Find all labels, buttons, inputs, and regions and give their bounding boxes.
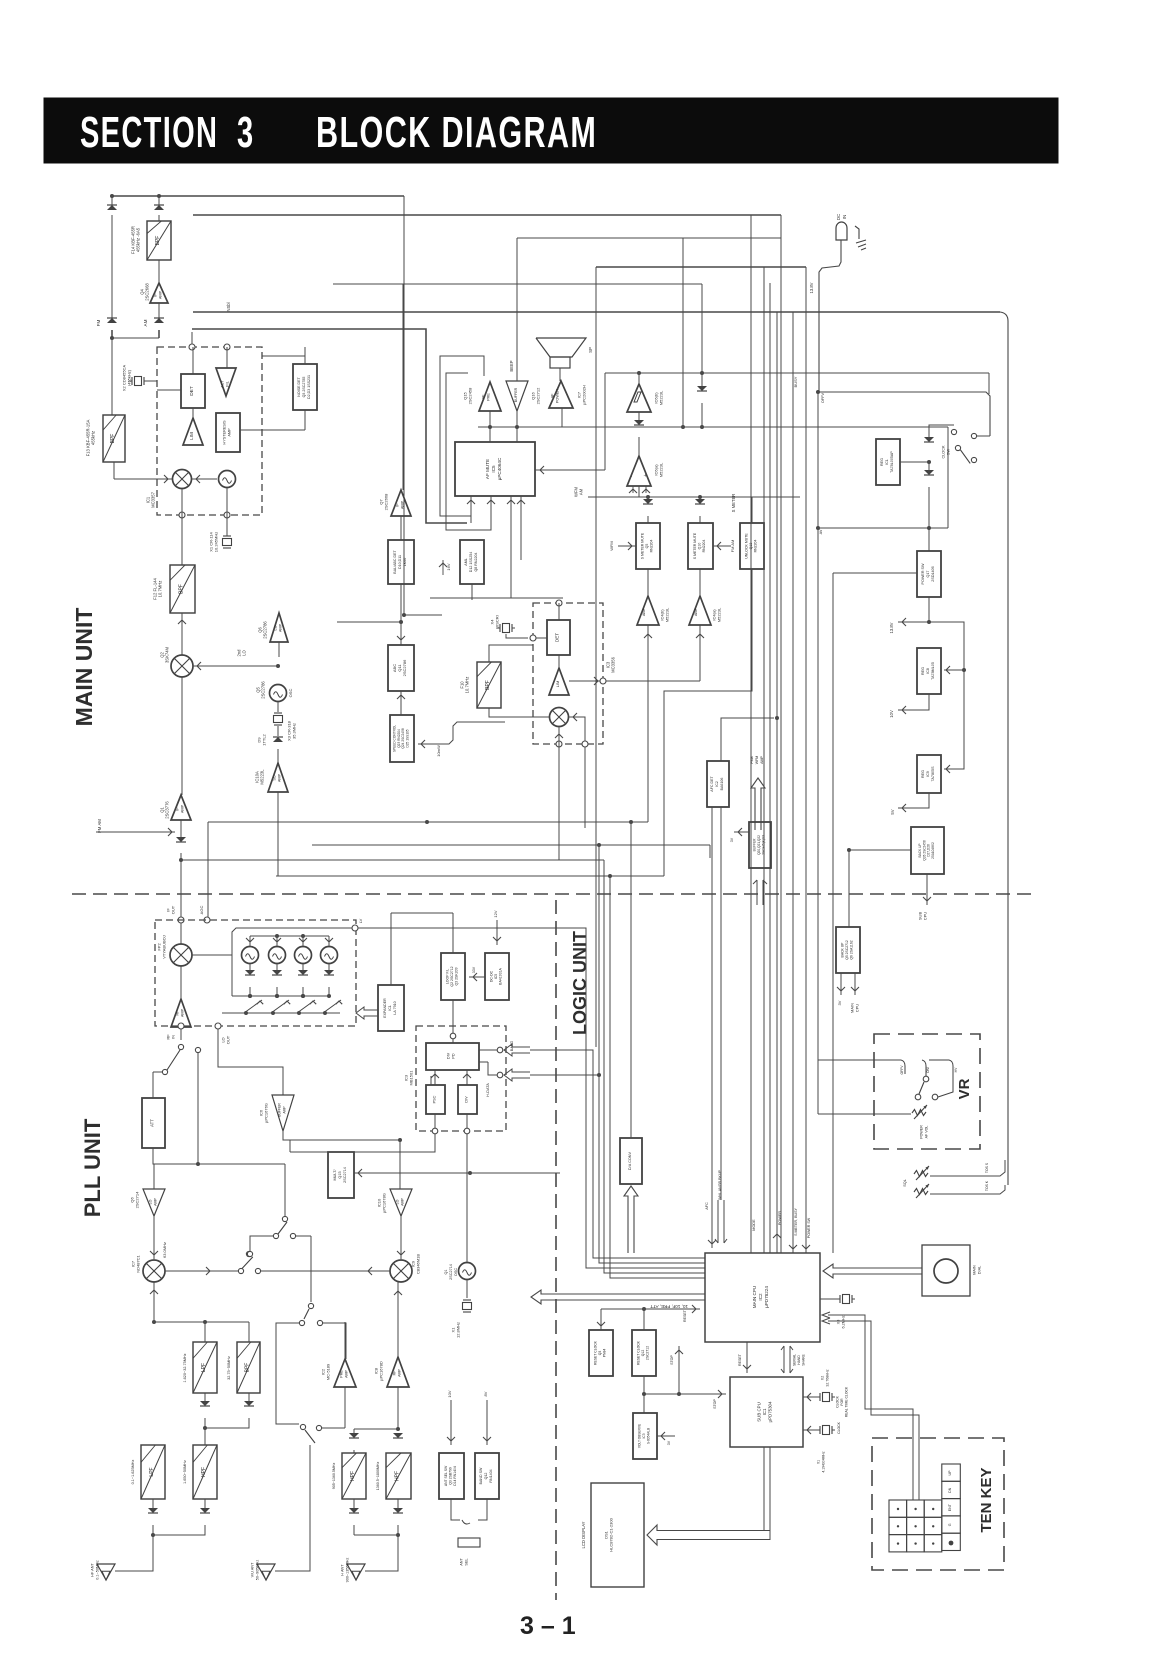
- box VOLT OBSERVE IC3: [633, 1413, 657, 1459]
- svg-text:1K60: 1K60: [403, 558, 407, 566]
- wire OFFV: [818, 392, 990, 436]
- svg-text:IC1: IC1: [388, 1005, 392, 1011]
- svg-text:AMP: AMP: [282, 1106, 286, 1114]
- diode D9: [277, 726, 279, 736]
- svg-text:TA78L005AP: TA78L005AP: [890, 451, 894, 473]
- amp IC10A SC AMP: [277, 749, 279, 763]
- box BUFFER Q20: [749, 822, 771, 868]
- svg-text:HPF: HPF: [395, 1471, 401, 1481]
- svg-text:Q6: Q6: [257, 627, 262, 633]
- svg-text:Q2 2SC2712: Q2 2SC2712: [450, 966, 454, 986]
- svg-text:AF VOL: AF VOL: [924, 1126, 928, 1139]
- diode right x702: [701, 373, 703, 390]
- svg-text:D/A CONV: D/A CONV: [628, 1151, 632, 1170]
- svg-text:PLL UNIT: PLL UNIT: [80, 1118, 105, 1217]
- amp IC10 LO AMP (down): [390, 1189, 412, 1216]
- terminal pins on IC1 box: [189, 344, 195, 350]
- svg-text:32.768kHz: 32.768kHz: [825, 1369, 829, 1386]
- svg-text:AFC: AFC: [705, 1202, 709, 1210]
- svg-text:SHAKE: SHAKE: [802, 1354, 806, 1366]
- amp IC4b AMP: [637, 596, 659, 625]
- svg-text:2SD1406: 2SD1406: [931, 566, 935, 581]
- mixer IC3: [550, 708, 569, 727]
- svg-text:LOOP F.L: LOOP F.L: [445, 969, 449, 984]
- label 13.8V arrow: [928, 597, 930, 622]
- box DET: [181, 374, 205, 408]
- svg-text:1TTL2: 1TTL2: [262, 733, 267, 745]
- label 3V volt observe: [657, 1435, 675, 1437]
- pot SQL: [914, 1171, 928, 1177]
- diode above S METER MUTE Q5: [647, 497, 649, 503]
- hollow arrow expander: [356, 1007, 378, 1019]
- svg-text:Q3 2SK209: Q3 2SK209: [455, 967, 459, 985]
- box BAND SW Q12: [475, 1453, 499, 1499]
- dashed divider logic unit vertical: [555, 900, 557, 1600]
- diode below IC6b: [638, 412, 640, 424]
- svg-text:MAIN: MAIN: [973, 1265, 977, 1275]
- box ATT: [142, 1098, 165, 1148]
- svg-text:HLC8782-C1-2300: HLC8782-C1-2300: [609, 1517, 614, 1551]
- wire rail 3 (S meter bus): [193, 311, 1000, 313]
- svg-text:ATT: ATT: [150, 1119, 155, 1127]
- amp IC6a with +/-: [638, 437, 640, 456]
- svg-text:1.620~32.75MHz: 1.620~32.75MHz: [183, 1353, 187, 1382]
- svg-text:Q2: Q2: [159, 652, 164, 658]
- wire loop fl down: [452, 1000, 454, 1043]
- svg-text:BAND SW: BAND SW: [479, 1467, 483, 1484]
- svg-text:BUSY: BUSY: [793, 376, 798, 387]
- svg-text:Q1: Q1: [159, 807, 164, 813]
- wire expander to loop: [391, 912, 453, 914]
- svg-text:2SC2714: 2SC2714: [343, 1167, 347, 1183]
- filter HPF 905: [342, 1453, 366, 1499]
- box REG IC8 TA78ML05: [917, 648, 941, 694]
- svg-text:HPF: HPF: [350, 1471, 356, 1481]
- box ANT SEL SW: [439, 1453, 464, 1499]
- svg-text:UP: UP: [948, 1470, 952, 1476]
- svg-text:AMP: AMP: [760, 756, 764, 764]
- svg-text:63.0MHz: 63.0MHz: [162, 1242, 167, 1258]
- crystal X4: [499, 624, 501, 632]
- svg-text:LA 7910: LA 7910: [393, 1001, 397, 1014]
- label FM AM arrow: [713, 545, 731, 547]
- svg-text:MULT/: MULT/: [333, 1169, 337, 1181]
- svg-text:AM: AM: [143, 319, 148, 326]
- wire extra bundle: [610, 876, 705, 1278]
- box MULT Q15: [328, 1152, 354, 1198]
- svg-text:AF: AF: [482, 394, 486, 400]
- svg-text:25A1048X2: 25A1048X2: [931, 842, 935, 859]
- svg-text:2nd: 2nd: [236, 649, 241, 657]
- svg-text:2SC2712: 2SC2712: [646, 1346, 650, 1360]
- diode D F14 right top: [154, 205, 164, 210]
- svg-text:REG: REG: [921, 667, 925, 675]
- svg-text:µPC1676G: µPC1676G: [264, 1103, 269, 1123]
- switch VU: [300, 1424, 305, 1429]
- svg-text:DIAL: DIAL: [978, 1266, 982, 1274]
- svg-text:3V: 3V: [730, 837, 734, 842]
- wire serial data into pll: [497, 1072, 503, 1078]
- svg-text:10.245MHz: 10.245MHz: [214, 532, 219, 552]
- svg-text:OSC: OSC: [454, 1268, 458, 1276]
- svg-text:ANT: ANT: [460, 1558, 464, 1566]
- svg-text:AF: AF: [551, 393, 555, 399]
- crystal X1 pll: [466, 1280, 468, 1298]
- svg-text:M5223L: M5223L: [260, 769, 265, 785]
- filter F14 KBF-455R: [147, 221, 171, 260]
- filter F10: [477, 662, 501, 708]
- svg-text:S-8054ALB: S-8054ALB: [646, 1428, 650, 1444]
- svg-text:RN2204: RN2204: [650, 540, 654, 553]
- svg-text:LO: LO: [396, 1199, 400, 1204]
- svg-text:ANT SEL SW: ANT SEL SW: [444, 1465, 448, 1486]
- box REG IC1 TA78L005AP: [876, 439, 900, 485]
- svg-text:POWER: POWER: [778, 1211, 782, 1226]
- svg-text:10mW: 10mW: [436, 745, 441, 757]
- svg-text:µPD78224: µPD78224: [764, 1286, 769, 1308]
- svg-text:DET: DET: [555, 633, 560, 642]
- svg-text:HF ANT: HF ANT: [91, 1563, 95, 1577]
- switch VR power: [818, 1059, 901, 1061]
- svg-text:F14 KBF-455R: F14 KBF-455R: [130, 226, 135, 254]
- wire y1164 rail: [153, 1163, 285, 1165]
- svg-text:455kHz: 455kHz: [91, 431, 96, 445]
- dashed box IC1 FM IF: [157, 347, 262, 515]
- svg-text:BA41931A: BA41931A: [499, 967, 503, 984]
- svg-text:CLOCK: CLOCK: [837, 1421, 841, 1433]
- wire rail y373: [605, 372, 989, 374]
- svg-text:12.8MHz: 12.8MHz: [456, 1322, 461, 1338]
- svg-text:Q23 RN2204: Q23 RN2204: [397, 729, 401, 748]
- svg-text:MC3357: MC3357: [151, 491, 156, 507]
- amp IC8 RF AMP: [387, 1357, 409, 1387]
- svg-text:LO: LO: [274, 625, 278, 630]
- box D/A CONV: [620, 1138, 642, 1184]
- svg-text:AMP: AMP: [279, 623, 283, 632]
- terminal IF OUT: [178, 917, 184, 923]
- svg-text:IC1: IC1: [885, 459, 889, 465]
- wire LIM out: [569, 680, 700, 682]
- svg-text:1.650~50MHz: 1.650~50MHz: [183, 1460, 187, 1484]
- amp RF AMP pll: [171, 999, 191, 1027]
- amp IC6b comparator: [627, 384, 651, 412]
- box MALABC DET: [388, 540, 414, 584]
- svg-text:10V: 10V: [889, 710, 894, 718]
- svg-text:ON/: ON/: [926, 1067, 930, 1073]
- wire volt observe: [643, 1376, 645, 1394]
- box PSC: [426, 1085, 445, 1114]
- box S METER MUTE Q5: [636, 523, 660, 569]
- label SUB CPU arrow: [926, 874, 928, 905]
- svg-text:MB1501: MB1501: [409, 1070, 414, 1086]
- box AML: [460, 540, 484, 584]
- svg-text:2SC2668: 2SC2668: [384, 493, 389, 510]
- wire band/hdata arrows: [479, 1049, 497, 1051]
- svg-text:LV: LV: [358, 918, 363, 923]
- wire afc det down: [711, 807, 713, 1248]
- wire reset rail: [600, 1309, 602, 1330]
- svg-text:0.1~1.625MHz: 0.1~1.625MHz: [131, 1460, 135, 1485]
- label RESET arrow subcpu: [746, 1342, 748, 1373]
- svg-text:AMP: AMP: [159, 290, 163, 299]
- svg-text:µPC2002H: µPC2002H: [582, 385, 587, 405]
- svg-text:S METER: S METER: [731, 494, 736, 513]
- svg-text:2SC2786: 2SC2786: [261, 681, 266, 699]
- amp IC6 BUFFER AMP (down): [272, 1095, 294, 1131]
- amp Q4 IF AMP: [158, 260, 160, 283]
- svg-text:D27,D28: D27,D28: [927, 844, 931, 857]
- wire LO OUT down: [218, 1029, 283, 1095]
- wires inside MB1501: [434, 1070, 436, 1085]
- svg-text:AV: AV: [819, 529, 823, 534]
- label 12V arrow dcdc: [496, 920, 498, 945]
- svg-text:M5223L: M5223L: [665, 607, 670, 622]
- svg-text:RF: RF: [176, 1010, 180, 1016]
- box POWER SW Q17: [917, 551, 941, 597]
- svg-text:3V: 3V: [667, 1440, 671, 1445]
- svg-text:10, 10F, PRE, ATT: 10, 10F, PRE, ATT: [650, 1304, 688, 1309]
- hollow arrow attenuator bus: [531, 1290, 705, 1304]
- svg-text:SECTION 3: SECTION 3: [80, 107, 255, 157]
- svg-text:F10: F10: [459, 681, 464, 689]
- svg-text:AMP: AMP: [181, 804, 185, 813]
- svg-text:SP: SP: [588, 347, 593, 353]
- svg-text:BPF: BPF: [110, 434, 116, 444]
- hollow arrows H-DATA: [504, 1044, 530, 1056]
- wire vertical x596 to logic: [595, 267, 597, 1047]
- svg-text:AMP: AMP: [401, 500, 405, 509]
- box HYSTERESIS AMP: [216, 413, 240, 452]
- svg-text:AF MUTE: AF MUTE: [485, 459, 490, 479]
- svg-text:Q20,Q21,Q22: Q20,Q21,Q22: [757, 835, 761, 855]
- dashed box TEN KEY: [872, 1438, 1004, 1570]
- pins bottom MB1501: [432, 1128, 438, 1134]
- svg-text:PRE: PRE: [340, 1370, 344, 1378]
- svg-text:2SC3776: 2SC3776: [165, 801, 170, 819]
- wire att bottom: [153, 1148, 198, 1164]
- svg-text:IC5: IC5: [491, 465, 496, 473]
- wire rail 4: [596, 266, 806, 268]
- svg-text:D25 1SS105: D25 1SS105: [406, 729, 410, 747]
- svg-text:HAND: HAND: [797, 1355, 801, 1365]
- oscillator bank: [242, 947, 259, 964]
- junction FM/AM: [111, 330, 113, 338]
- terminal AGC: [204, 917, 210, 923]
- wire busy bus verticals: [780, 215, 782, 1253]
- svg-text:AMP: AMP: [694, 607, 698, 616]
- svg-text:SPEED CONTROL: SPEED CONTROL: [392, 725, 396, 753]
- svg-text:BUFFER: BUFFER: [753, 838, 757, 851]
- amp LIM: [183, 418, 203, 445]
- filter HPF row2: [193, 1445, 217, 1499]
- mixer IC1 first: [173, 470, 192, 489]
- svg-text:32.75~50MHz: 32.75~50MHz: [227, 1356, 231, 1380]
- box VR dashed: [874, 1034, 980, 1149]
- svg-text:HV: HV: [954, 1067, 958, 1072]
- svg-text:POWER SW: POWER SW: [807, 1217, 811, 1238]
- diode below Q1: [180, 820, 182, 841]
- svg-text:RESET: RESET: [738, 1353, 742, 1366]
- label 16V: [442, 560, 444, 575]
- diodes under row3: [349, 1508, 359, 1513]
- box LCD DISPLAY: [591, 1483, 644, 1587]
- wire buffer out rail: [283, 1131, 400, 1140]
- svg-text:M5223L: M5223L: [659, 462, 664, 477]
- box MAIN DIAL: [922, 1245, 970, 1296]
- wire af mute feedback loop outer: [440, 356, 484, 523]
- box DIV PD: [426, 1043, 479, 1070]
- svg-text:IC1: IC1: [762, 1408, 767, 1415]
- svg-text:ND487C1: ND487C1: [136, 1254, 141, 1272]
- svg-text:FIL: FIL: [225, 380, 230, 387]
- svg-text:Q3: Q3: [598, 1351, 602, 1356]
- svg-text:CLOCK: CLOCK: [835, 1395, 839, 1407]
- svg-text:OUT: OUT: [171, 905, 176, 914]
- svg-text:V/U ANT: V/U ANT: [251, 1562, 255, 1577]
- svg-text:13.8V: 13.8V: [809, 282, 814, 293]
- mixer IC7 pll: [153, 1216, 155, 1259]
- svg-text:WFM: WFM: [609, 541, 614, 551]
- svg-text:16V: 16V: [446, 563, 451, 570]
- mixer FP2: [180, 923, 182, 944]
- svg-text:PRE: PRE: [487, 393, 491, 401]
- svg-text:REG: REG: [880, 458, 884, 466]
- svg-text:BEEP: BEEP: [509, 360, 514, 371]
- hollow arrow below buffer: [753, 880, 767, 905]
- svg-text:Q5: Q5: [645, 544, 649, 549]
- svg-text:VOLT OBSERVE: VOLT OBSERVE: [638, 1424, 642, 1448]
- label 3V buffer: [734, 831, 749, 833]
- svg-text:OFFV: OFFV: [821, 392, 825, 403]
- arrow into AF MUTE: [535, 469, 605, 471]
- svg-text:Q15: Q15: [338, 1171, 342, 1178]
- svg-text:DIV: DIV: [465, 1096, 469, 1103]
- dashed box IC3 MC3356: [533, 603, 603, 744]
- wire rail 2: [193, 214, 781, 216]
- svg-text:Q8 RN2204: Q8 RN2204: [474, 553, 478, 572]
- box SPEED CONTROL: [390, 715, 414, 762]
- pot POWER AF VOL: [912, 1110, 926, 1116]
- svg-text:0.1~50MHz: 0.1~50MHz: [96, 1560, 100, 1580]
- svg-text:FM AM: FM AM: [97, 819, 102, 833]
- label 5V arrow: [898, 793, 929, 808]
- svg-text:Q4: Q4: [139, 289, 144, 295]
- svg-text:X3: X3: [837, 1320, 841, 1325]
- svg-text:ENT: ENT: [948, 1503, 952, 1511]
- svg-text:RESET: RESET: [683, 1309, 687, 1322]
- oscillator Q1 pll: [459, 1263, 476, 1280]
- svg-text:MAIN CPU: MAIN CPU: [752, 1286, 757, 1308]
- svg-text:IC2: IC2: [715, 781, 719, 787]
- label 10mW: [418, 722, 505, 744]
- wire into POWER SW left: [833, 572, 917, 574]
- antenna HF ANT: [97, 1564, 115, 1580]
- wire af mute bottom to rail: [510, 523, 512, 598]
- svg-text:10V: 10V: [447, 1390, 452, 1397]
- antenna H ANT: [347, 1564, 365, 1580]
- svg-text:DIV: DIV: [447, 1052, 451, 1059]
- diode above S METER MUTE Q10: [699, 497, 701, 503]
- svg-text:DC: DC: [836, 214, 841, 220]
- svg-text:+: +: [643, 474, 649, 477]
- diodes above hpf row3: [349, 1433, 359, 1438]
- ground DC IN: [856, 240, 866, 243]
- svg-text:HPF: HPF: [201, 1467, 207, 1477]
- mixer Q2 2nd: [181, 613, 183, 655]
- svg-text:2SC2458: 2SC2458: [468, 387, 473, 404]
- svg-text:IC10A: IC10A: [254, 771, 259, 783]
- svg-text:REAL TIME CLOCK: REAL TIME CLOCK: [845, 1386, 849, 1417]
- svg-text:Q5 2SC2712: Q5 2SC2712: [845, 940, 849, 960]
- wire vertical x683: [682, 238, 684, 427]
- svg-text:TA78ML05: TA78ML05: [931, 662, 935, 680]
- svg-text:TOS S: TOS S: [985, 1162, 989, 1173]
- svg-text:455kHz -6A5: 455kHz -6A5: [136, 227, 141, 252]
- box EXPANDER IC: [378, 985, 404, 1031]
- svg-text:AMP: AMP: [397, 1369, 401, 1377]
- arrows +/- inputs: [632, 486, 634, 493]
- svg-text:900~1356MHz: 900~1356MHz: [346, 1558, 350, 1583]
- diode FM: [158, 303, 160, 318]
- diodes under row2: [148, 1508, 158, 1513]
- label WFM arrow: [618, 545, 636, 547]
- hollow arrow da conv: [624, 1186, 638, 1253]
- svg-text:2SC2714: 2SC2714: [449, 1264, 453, 1280]
- svg-text:NSbl: NSbl: [226, 302, 231, 311]
- relay ANT SEL: [451, 1499, 460, 1520]
- wire back up left: [849, 849, 911, 851]
- svg-text:STOP: STOP: [670, 1355, 674, 1365]
- switch bank centre pll: [238, 1268, 243, 1273]
- svg-text:35.3MHz: 35.3MHz: [292, 723, 297, 739]
- wire s-meter rail y497: [630, 496, 800, 498]
- svg-text:PSC: PSC: [433, 1095, 437, 1103]
- svg-text:3SK74M: 3SK74M: [165, 646, 170, 663]
- label 3V arrow: [840, 973, 842, 995]
- wire rail AF left loop: [404, 196, 442, 615]
- svg-text:SQL: SQL: [903, 1179, 907, 1187]
- label 33V arrow: [469, 976, 485, 978]
- terminal LV: [352, 925, 358, 931]
- svg-text:IN: IN: [171, 1035, 176, 1039]
- svg-text:13.8V: 13.8V: [889, 622, 894, 633]
- svg-text:3 – 1: 3 – 1: [520, 1612, 576, 1640]
- filter HPF 1360: [386, 1453, 411, 1499]
- wire main dial arrow: [823, 1264, 922, 1278]
- svg-text:TEN KEY: TEN KEY: [978, 1467, 995, 1532]
- svg-text:CPU: CPU: [855, 1004, 860, 1013]
- wire keypad bus up to cpu: [828, 1315, 913, 1447]
- amp IC2 PRE AMP: [334, 1359, 356, 1387]
- box REG IC9 TA7805S: [917, 755, 941, 793]
- svg-text:RN2204: RN2204: [754, 540, 758, 553]
- box BACK UP Q5 Q6 (logic): [836, 927, 860, 973]
- label FM AM input: [96, 831, 175, 833]
- wire bus to keypad: [912, 1447, 914, 1500]
- svg-text:NOISE DET: NOISE DET: [297, 377, 301, 397]
- oscillator Q5: [270, 685, 287, 702]
- svg-text:D12 1SS254: D12 1SS254: [469, 552, 473, 572]
- svg-text:905~1360.5MHz: 905~1360.5MHz: [332, 1463, 336, 1490]
- svg-text:SEL: SEL: [465, 1558, 469, 1565]
- svg-text:MODE: MODE: [752, 1219, 756, 1231]
- svg-text:SUB CPU: SUB CPU: [756, 1402, 761, 1422]
- amp Q6 LO AMP pll (down): [143, 1189, 165, 1216]
- svg-text:F12 FL-144: F12 FL-144: [152, 578, 157, 600]
- svg-text:H ANT: H ANT: [341, 1564, 345, 1576]
- speaker SP: [536, 338, 586, 357]
- wire rail y598: [430, 597, 563, 599]
